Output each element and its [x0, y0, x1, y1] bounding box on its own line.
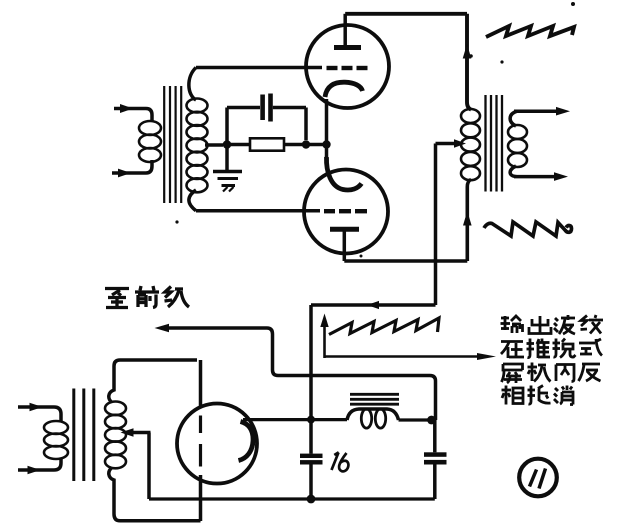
junction dot B+ node [307, 416, 315, 424]
tube V1 cathode [325, 82, 363, 97]
wire cathode node to V1 cathode [325, 99, 329, 145]
rectifier V3 plate line top [199, 360, 203, 408]
ripple waveform top right [486, 26, 574, 37]
input transformer T1 primary top lead [114, 104, 152, 121]
input transformer T1 secondary winding [187, 99, 208, 193]
wire choke output down to capacitor C3 [433, 420, 437, 452]
value label 16 [332, 452, 349, 471]
tube V2 envelope [304, 170, 388, 254]
ripple waveform bottom right [484, 222, 572, 236]
wire B+ riser from T2 center tap [311, 144, 436, 306]
label: output ripple cancels in push-pull plates (Chinese, 4 lines) [501, 315, 604, 405]
ground [213, 172, 242, 192]
wire bottom rail V2 plate to T2 [344, 180, 471, 262]
arrow up on T2 primary bottom lead [463, 211, 472, 226]
rectifier V3 plate line bottom [199, 475, 203, 521]
wire C3 to B- rail corner [433, 465, 437, 500]
wire T3 secondary top to V3 plate 1 [109, 360, 197, 403]
power transformer T3 core [74, 389, 94, 482]
wire T3 center tap riser to B- rail [147, 433, 151, 500]
label: to front stage (Chinese) [105, 286, 189, 308]
figure number 11 circled [519, 459, 557, 497]
annotation arrow up at ripple [320, 314, 328, 359]
tube V2 grid dashes [324, 209, 367, 213]
tube V1 envelope [306, 25, 389, 108]
capacitor C2 [300, 454, 323, 465]
wire T3 center tap with arrow [121, 428, 151, 437]
node B junction dot [302, 140, 310, 148]
node A junction dot [223, 140, 232, 149]
rectifier V3 filament [239, 422, 254, 461]
tube V1 grid dashes [327, 66, 368, 70]
wire C1 right to node B [273, 108, 306, 141]
wire V2 grid lead [196, 209, 320, 213]
arrow up on T2 primary top lead [463, 44, 472, 59]
rectifier V3 plate dashes [199, 416, 202, 467]
choke L1 winding [347, 409, 399, 428]
wire node A up to capacitor C1 [227, 108, 260, 142]
wire T1 secondary top lead [189, 68, 196, 101]
speckle dots [175, 2, 575, 258]
tube V2 cathode [326, 157, 361, 190]
wire to front stage with left arrow [155, 324, 436, 420]
annotation line to text with right arrow [325, 353, 497, 360]
tube V1 plate [334, 14, 361, 48]
power transformer T3 secondary winding [105, 402, 126, 469]
wire node A to resistor R1 [229, 143, 250, 147]
wire choke to junction [399, 418, 432, 421]
wire cathode node to V2 cathode [325, 145, 329, 159]
wire B+ riser x311 down to filter [309, 305, 313, 454]
junction dot on B- rail [307, 495, 316, 504]
output transformer T2 primary winding [461, 109, 480, 180]
input transformer T1 primary winding [139, 121, 161, 162]
power transformer T3 primary winding [44, 421, 68, 459]
output transformer T2 secondary winding [508, 125, 527, 167]
rectifier V3 envelope [177, 404, 257, 484]
choke L1 core [350, 394, 399, 404]
junction dot choke output [427, 416, 436, 425]
resistor R1 [250, 138, 284, 150]
input transformer T1 primary bottom lead [112, 160, 152, 177]
wire T2 secondary top output lead with arrow [510, 107, 570, 126]
B- rail [149, 497, 435, 500]
wire T2 center tap lead [436, 139, 467, 148]
wire V3 filament B+ output to choke [243, 418, 347, 421]
wire C2 to B- rail [309, 465, 313, 500]
cathode node junction dot [322, 140, 330, 148]
tube V2 plate [330, 229, 359, 261]
wire R1 to cathode node [284, 143, 330, 147]
ripple waveform at B+ node [329, 318, 439, 335]
wire top rail V1 plate to T2 [345, 14, 471, 110]
output transformer T2 core [486, 95, 503, 192]
wire node A to ground [225, 148, 229, 170]
wire T2 secondary bottom output lead with arrow [510, 166, 568, 181]
arrow left on B+ feed [367, 301, 379, 309]
wire T1 center tap to node A [205, 143, 223, 147]
input transformer T1 core [164, 86, 181, 203]
capacitor C1 [260, 94, 273, 122]
wire T3 secondary bottom to V3 plate 2 [109, 468, 201, 521]
power transformer T3 primary bottom lead with arrow [18, 458, 61, 474]
wire V1 grid lead [196, 66, 322, 70]
power transformer T3 primary top lead with arrow [18, 403, 61, 421]
wire T1 secondary bottom lead [189, 190, 196, 211]
capacitor C3 [424, 452, 447, 464]
